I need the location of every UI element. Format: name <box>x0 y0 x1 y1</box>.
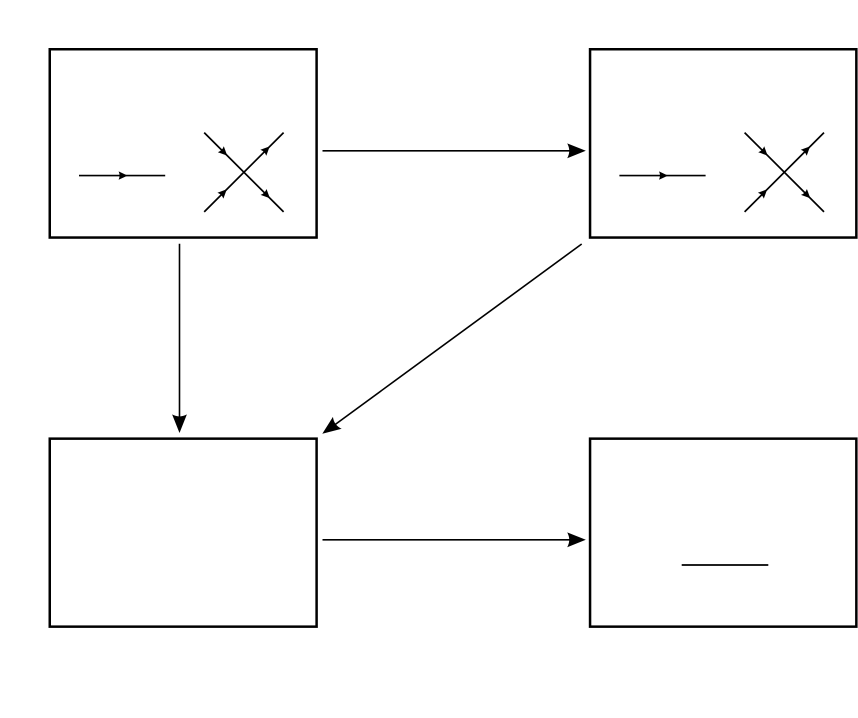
box B crossing strand SW-NE <box>745 133 824 212</box>
box B strand arrow <box>619 171 705 179</box>
box A crossing strand NW-SE <box>204 133 283 212</box>
box D smoothed strand line <box>682 564 769 566</box>
box A (top-left) <box>50 49 317 237</box>
box B (top-right) <box>590 49 856 237</box>
arrow C to D <box>323 532 586 547</box>
arrow B to C (diagonal) <box>318 244 582 440</box>
box B crossing strand NW-SE <box>745 133 824 212</box>
box A crossing strand SW-NE <box>204 133 283 212</box>
box A strand arrow <box>79 171 165 179</box>
box D (bottom-right) <box>590 439 856 627</box>
box C (bottom-left) <box>50 439 317 627</box>
arrow A to C <box>172 244 187 433</box>
arrow A to B <box>323 143 586 158</box>
